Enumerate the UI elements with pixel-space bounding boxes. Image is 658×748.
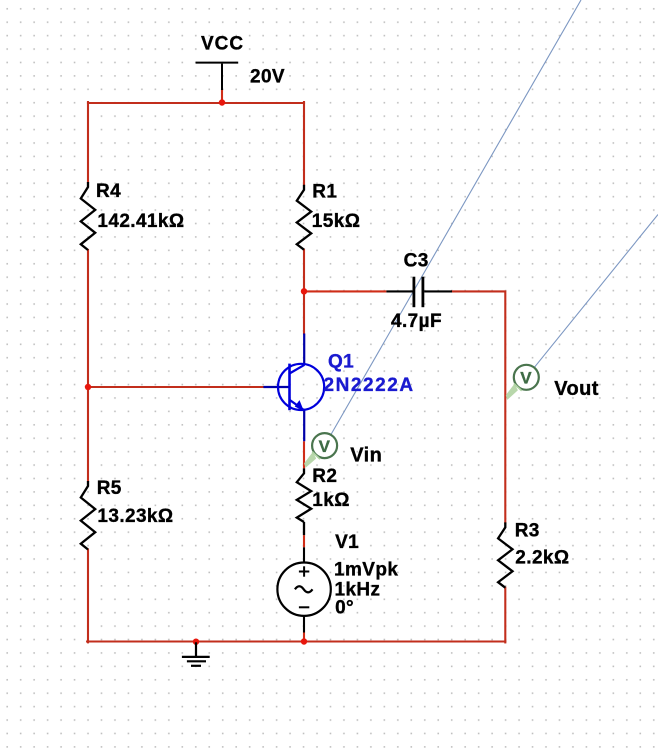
svg-text:15kΩ: 15kΩ [312,211,361,232]
wire left vertical below R5 [87,550,89,643]
probe wire to Vout [534,215,658,368]
R2 lead to V1 [303,522,305,535]
resistor R5 [81,481,95,550]
probe Vout [506,365,539,400]
svg-text:V1: V1 [335,532,359,553]
wire below R3 [504,588,506,643]
svg-text:2.2kΩ: 2.2kΩ [515,548,569,569]
svg-text:V: V [319,437,331,456]
probe wire to Vin [331,0,581,435]
transistor Q1 [263,334,324,442]
wire node to C3 left [304,290,386,292]
junction ground node [193,639,199,645]
svg-text:R1: R1 [312,181,337,202]
wire left vertical [87,102,89,182]
resistor R1 [297,185,311,250]
svg-text:0°: 0° [335,598,354,619]
svg-text:142.41kΩ: 142.41kΩ [97,211,184,232]
resistor R4 [81,182,95,250]
junction base node [85,384,91,390]
wire base horizontal [88,386,263,388]
svg-text:1mVpk: 1mVpk [334,560,398,581]
svg-text:VCC: VCC [201,34,244,55]
wire R1 bottom to node [303,250,305,292]
svg-text:20V: 20V [250,66,285,87]
svg-text:1kΩ: 1kΩ [312,490,350,511]
wire bottom horizontal [87,640,505,642]
svg-text:13.23kΩ: 13.23kΩ [97,506,173,527]
svg-text:R3: R3 [515,521,540,542]
svg-text:Vin: Vin [350,445,382,467]
svg-text:2N2222A: 2N2222A [324,375,415,396]
wire R2 to V1 [303,535,305,547]
wire top horizontal [88,102,304,104]
svg-text:R2: R2 [312,466,337,487]
capacitor C3 [386,277,452,308]
svg-text:C3: C3 [404,251,429,272]
probe Vin [304,433,337,468]
wire V1 bottom [303,633,305,642]
junction V1 bottom node [301,638,307,644]
power VCC [196,63,239,90]
svg-text:4.7µF: 4.7µF [391,311,442,332]
AC source V1 [277,547,330,632]
resistor R2 [297,468,311,522]
svg-text:R5: R5 [97,478,122,499]
junction VCC node [219,99,225,105]
wire left vertical below R4 [87,250,89,481]
junction collector node [301,288,307,294]
svg-text:R4: R4 [96,181,121,202]
resistor R3 [498,522,512,587]
wire node to collector [303,291,305,333]
svg-text:Vout: Vout [554,378,599,400]
wire emitter to R2 [303,441,305,468]
wire VCC stub [221,89,223,102]
svg-text:Q1: Q1 [328,351,354,372]
svg-text:V: V [520,369,532,388]
wire R1 top [303,102,305,185]
ground [182,642,210,666]
wire C3 right to corner [452,291,505,522]
